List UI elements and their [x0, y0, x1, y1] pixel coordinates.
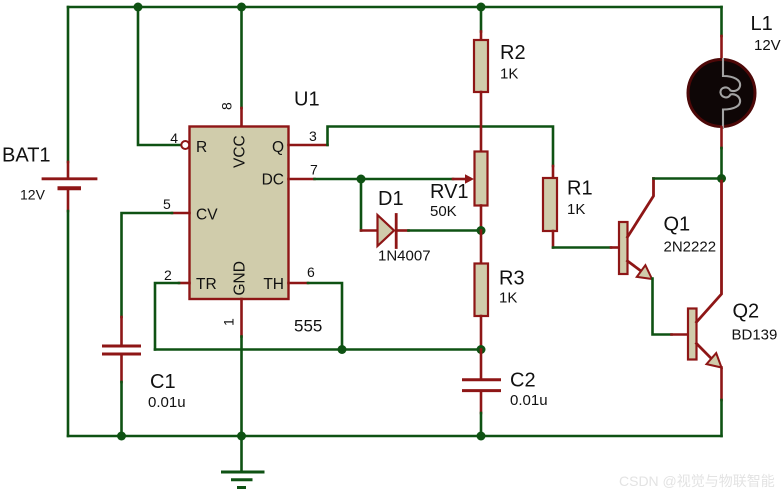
resistor R2	[474, 32, 488, 127]
svg-text:50K: 50K	[430, 203, 457, 220]
wire battery negative to bottom rail	[67, 211, 70, 436]
node junction top rail / reset drop	[134, 3, 143, 12]
wire D1 branch: down from node, right to diode	[360, 179, 363, 231]
svg-text:GND: GND	[232, 261, 249, 295]
capacitor C2	[464, 350, 500, 414]
svg-text:C2: C2	[510, 370, 536, 392]
svg-text:R3: R3	[499, 268, 525, 290]
wire Q1 emitter to Q2 base	[653, 279, 672, 335]
potentiometer RV1	[453, 127, 488, 231]
node junction lamp / Q1 / Q2 collector	[717, 174, 726, 183]
svg-text:2N2222: 2N2222	[664, 239, 717, 256]
node junction TH / horizontal net	[338, 345, 347, 354]
svg-text:7: 7	[310, 162, 318, 178]
svg-text:1K: 1K	[499, 290, 517, 307]
pin 4 inversion bubble	[181, 141, 189, 149]
wire VCC drop to pin 8	[240, 7, 243, 108]
node junction ground rail / ground symbol	[237, 432, 246, 441]
svg-text:CV: CV	[196, 207, 218, 224]
node junction horizontal net / R3-C2 column	[477, 345, 486, 354]
wire C2 bottom to ground rail	[480, 413, 483, 436]
svg-text:Q1: Q1	[664, 214, 691, 236]
svg-text:BAT1: BAT1	[2, 145, 51, 167]
svg-text:R1: R1	[567, 178, 593, 200]
wire lamp top from rail corner	[720, 7, 723, 36]
transistor Q2 BD139	[688, 179, 722, 401]
svg-text:BD139: BD139	[732, 327, 778, 344]
svg-text:DC: DC	[262, 172, 284, 189]
svg-text:1K: 1K	[500, 66, 518, 83]
svg-text:1: 1	[221, 318, 237, 326]
svg-text:R2: R2	[500, 42, 526, 64]
capacitor C1	[104, 317, 140, 382]
wire lamp bottom to collector node	[720, 148, 723, 179]
svg-text:R: R	[196, 139, 207, 156]
lamp L1	[688, 36, 755, 148]
node junction top rail / VCC drop	[237, 3, 246, 12]
resistor R1	[543, 166, 557, 248]
wire pin3 output: right, up, across, down to R1	[289, 144, 328, 147]
svg-text:3: 3	[309, 128, 317, 144]
node junction RV1 bottom / D1 / R3	[477, 226, 486, 235]
transistor Q1 2N2222	[619, 179, 654, 280]
wire reset drop to pin 4	[138, 7, 181, 145]
wire R2 top lead from rail	[480, 7, 483, 32]
wire pin2 TR down to ground wire	[179, 282, 190, 285]
svg-text:RV1: RV1	[430, 181, 469, 203]
svg-text:0.01u: 0.01u	[148, 394, 186, 411]
wire pin5 CV to C1	[172, 212, 190, 215]
wire pin6 TH right and down	[289, 282, 309, 285]
pin 8 lead	[240, 108, 243, 127]
svg-text:4: 4	[170, 130, 178, 146]
node junction C2 / ground rail	[477, 432, 486, 441]
wire pin7 DC to RV1 wiper	[289, 178, 315, 181]
wire left vertical from rail to battery	[67, 7, 70, 162]
wire C1 bottom to ground rail	[120, 382, 123, 436]
pin 1 GND lead	[240, 299, 243, 337]
svg-text:CSDN @视觉与物联智能: CSDN @视觉与物联智能	[619, 473, 775, 489]
wire diode cathode to RV1 bottom	[409, 229, 482, 232]
svg-text:TR: TR	[196, 276, 217, 293]
node junction top rail / R2	[477, 3, 486, 12]
svg-text:12V: 12V	[20, 187, 46, 203]
ground symbol	[223, 436, 264, 488]
svg-text:Q: Q	[272, 139, 284, 156]
svg-text:1N4007: 1N4007	[378, 248, 431, 265]
svg-text:2: 2	[164, 267, 172, 283]
svg-text:L1: L1	[751, 13, 773, 35]
op: IC U1 555 timer body	[190, 127, 289, 300]
svg-text:6: 6	[307, 264, 315, 280]
battery BAT1	[43, 162, 96, 211]
svg-text:1K: 1K	[567, 201, 585, 218]
svg-text:5: 5	[163, 196, 171, 212]
wire R1 bottom to Q1 base	[553, 246, 611, 249]
node junction C1 / ground rail	[117, 432, 126, 441]
svg-text:0.01u: 0.01u	[510, 392, 548, 409]
wire GND pin to ground rail	[240, 337, 243, 437]
resistor R3	[475, 231, 489, 350]
svg-text:12V: 12V	[754, 37, 781, 54]
wire bottom ground rail	[68, 435, 722, 438]
svg-text:D1: D1	[378, 188, 404, 210]
svg-text:Q2: Q2	[733, 301, 760, 323]
wire top power rail	[68, 6, 722, 9]
svg-text:TH: TH	[263, 276, 284, 293]
svg-text:U1: U1	[294, 89, 320, 111]
svg-text:C1: C1	[150, 371, 176, 393]
wire TR/TH/C2 horizontal net	[155, 348, 481, 351]
svg-text:555: 555	[294, 317, 322, 336]
svg-text:VCC: VCC	[232, 135, 249, 168]
diode D1	[361, 215, 409, 248]
wire Q1 collector to lamp node	[654, 177, 722, 180]
node junction DC wire / D1 branch	[357, 175, 366, 184]
svg-text:8: 8	[219, 102, 235, 110]
wire Q2 emitter to ground rail	[720, 400, 723, 436]
